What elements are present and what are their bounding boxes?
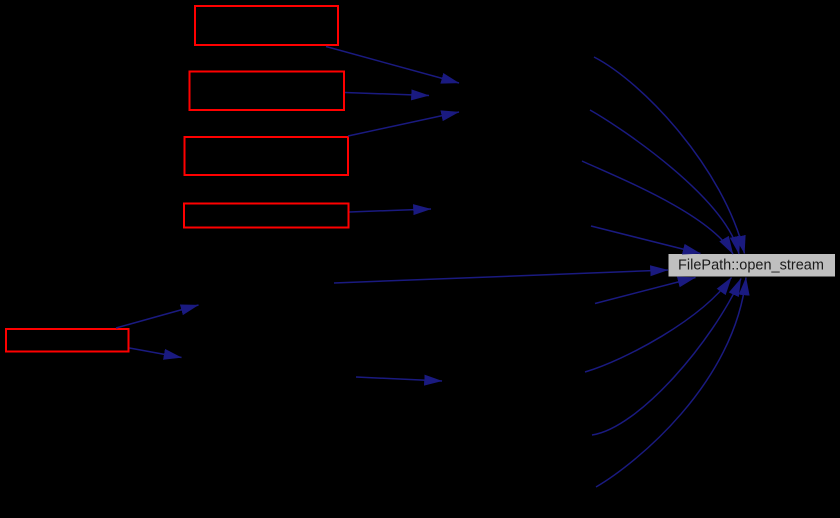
edge D: box4 to hidden node (straight arrow) xyxy=(350,209,432,212)
edge B: box2 to hidden node (straight arrow) xyxy=(345,93,429,96)
edge I: top curve into open_stream xyxy=(594,57,745,254)
node: red caller box 5 (far left) xyxy=(6,329,129,352)
node: red caller box 3 xyxy=(185,137,349,175)
svg-text:FilePath::open_stream: FilePath::open_stream xyxy=(678,258,824,274)
edge H: lower middle straight arrow to hidden node xyxy=(356,377,442,381)
edge M: shallow bottom edge into open_stream xyxy=(595,278,696,304)
edge P: third bottom curve into open_stream xyxy=(596,278,746,488)
edge L: fourth shallow top edge into open_stream xyxy=(591,226,701,254)
edge C: box3 to hidden node (straight arrow) xyxy=(348,112,459,136)
node: red caller box 4 xyxy=(184,204,349,228)
edge J: second top curve into open_stream xyxy=(590,110,739,254)
edge N: bottom curve into open_stream xyxy=(585,278,732,373)
edge A: box1 to hidden node (straight arrow) xyxy=(326,47,459,84)
edge E: long straight edge into left side of open_stream xyxy=(334,270,668,283)
node: FilePath::open_stream (gray highlighted) xyxy=(669,254,836,277)
node: red caller box 1 (top) xyxy=(195,6,338,45)
edge F: box5 upper arrow to hidden node xyxy=(116,305,199,328)
node: red caller box 2 xyxy=(190,72,345,111)
edge G: box5 lower arrow to hidden node xyxy=(130,348,182,358)
edge O: second bottom curve into open_stream xyxy=(592,279,741,436)
edge K: third top curve into open_stream xyxy=(582,161,733,254)
